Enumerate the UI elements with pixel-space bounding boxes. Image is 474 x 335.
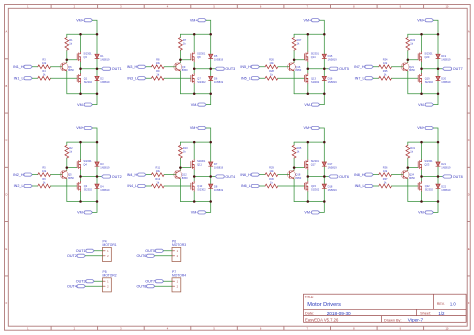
wire OUT4 to pin 2 xyxy=(85,285,102,287)
svg-text:Drawn By:: Drawn By: xyxy=(384,318,402,322)
diode D8 1N5819 low side (row2 col2) xyxy=(209,184,224,192)
wire diode column (row1 col4) xyxy=(437,34,439,93)
resistor R5 10k base series (row2 col1) xyxy=(38,165,51,176)
svg-text:R34: R34 xyxy=(383,58,388,62)
port OUT4 to P5 pin 2 xyxy=(67,284,85,288)
transistor Q18 8050 NPN (row2 col3) xyxy=(287,170,301,180)
svg-text:R26: R26 xyxy=(269,58,274,62)
input port IN4_L (row2 col2) xyxy=(127,184,146,188)
svg-text:R35: R35 xyxy=(383,69,388,73)
transistor Q15 SI2302 N-FET (row2 col3) xyxy=(305,181,320,192)
svg-text:Q4: Q4 xyxy=(83,163,87,167)
svg-text:Q10: Q10 xyxy=(197,184,202,188)
input port IN2_L (row2 col1) xyxy=(14,184,33,188)
svg-text:8050: 8050 xyxy=(182,68,188,72)
svg-text:1.0: 1.0 xyxy=(450,301,456,306)
svg-text:D4: D4 xyxy=(100,184,104,188)
svg-text:OUT8: OUT8 xyxy=(453,175,463,179)
wire VM+ to top rail (row2 col4) xyxy=(434,128,439,142)
wire gate node to P-FET gate (row2 col4) xyxy=(408,167,418,169)
wire gate resistor to N-FET gate (row2 col4) xyxy=(392,185,419,187)
svg-text:IN5_H: IN5_H xyxy=(240,65,251,69)
power port VM- (row2 col2) xyxy=(191,211,206,215)
svg-text:OUT8: OUT8 xyxy=(136,284,146,288)
port OUT7 to P7 pin 1 xyxy=(145,279,163,283)
svg-text:R10: R10 xyxy=(183,146,188,150)
resistor R36 10k base series (row2 col4) xyxy=(379,165,392,176)
svg-text:R11: R11 xyxy=(156,165,161,169)
wire base resistor to Q base (row2 col1) xyxy=(51,174,63,176)
svg-text:OUT7: OUT7 xyxy=(145,279,155,283)
wire OUT5 to pin 1 xyxy=(164,250,172,252)
wire emitter to bottom rail (row2 col4) xyxy=(407,179,409,202)
wire FET column verticals (row1 col1) xyxy=(80,34,82,93)
svg-text:R6: R6 xyxy=(42,177,46,181)
wire IN1_L to gate resistor (row1 col1) xyxy=(32,77,38,79)
wire gate resistor to N-FET gate (row2 col2) xyxy=(164,185,191,187)
junction dots (row1 col4) xyxy=(407,33,440,95)
wire base resistor to Q base (row2 col2) xyxy=(164,174,176,176)
svg-text:VM+: VM+ xyxy=(190,18,198,22)
wire diode column (row2 col1) xyxy=(96,142,98,201)
connector P4 MOTOR1 xyxy=(103,240,117,262)
transistor Q22 SI2302 N-FET (row2 col4) xyxy=(418,181,433,192)
resistor R30 1k gate series (row2 col3) xyxy=(265,177,278,188)
svg-text:1N5819: 1N5819 xyxy=(328,188,338,192)
input port IN4_H (row2 col2) xyxy=(127,173,146,177)
svg-text:OUT6: OUT6 xyxy=(339,175,349,179)
output port OUT3 (row1 col2) xyxy=(215,67,235,71)
wire output row (row2 col3) xyxy=(308,176,329,178)
wire collector to gate node (row1 col4) xyxy=(407,60,409,63)
diode D3 1N5819 high side (row2 col1) xyxy=(95,162,110,170)
svg-text:D19: D19 xyxy=(441,54,446,58)
input port IN1_H (row1 col1) xyxy=(13,65,32,69)
svg-text:10k: 10k xyxy=(269,61,274,65)
svg-text:OUT3: OUT3 xyxy=(76,279,86,283)
svg-text:OUT4: OUT4 xyxy=(225,175,235,179)
wire bottom rail (row2 col1) xyxy=(67,201,97,203)
wire diode column (row1 col2) xyxy=(210,34,212,93)
wire diode column (row1 col1) xyxy=(96,34,98,93)
transistor Q11 SI2301 P-FET (row2 col2) xyxy=(191,159,206,170)
wire IN7_H to base resistor (row1 col4) xyxy=(373,66,379,68)
wire gate node to P-FET gate (row1 col4) xyxy=(408,59,418,61)
power port VM- (row1 col4) xyxy=(418,103,433,107)
transistor Q9 8050 NPN (row1 col2) xyxy=(174,63,188,73)
svg-text:R8: R8 xyxy=(156,58,160,62)
svg-text:R2: R2 xyxy=(69,146,73,150)
transistor Q21 8050 NPN (row1 col4) xyxy=(401,63,415,73)
svg-text:A: A xyxy=(468,30,470,34)
transistor Q19 SI2302 N-FET (row1 col4) xyxy=(418,73,433,84)
wire diode column (row2 col3) xyxy=(323,142,325,201)
wire emitter to bottom rail (row1 col3) xyxy=(293,71,295,94)
output port OUT7 (row1 col4) xyxy=(443,67,463,71)
svg-text:EasyEDA V5.7.26: EasyEDA V5.7.26 xyxy=(305,317,339,322)
svg-text:R5: R5 xyxy=(42,165,46,169)
svg-text:10k: 10k xyxy=(383,169,388,173)
svg-text:C: C xyxy=(5,138,7,142)
diode D1 1N5819 high side (row1 col1) xyxy=(95,54,110,62)
svg-text:D6: D6 xyxy=(214,77,218,81)
svg-text:8050: 8050 xyxy=(295,176,301,180)
svg-text:D8: D8 xyxy=(214,184,218,188)
wire gate resistor to N-FET gate (row1 col3) xyxy=(278,77,305,79)
svg-text:D1: D1 xyxy=(100,54,104,58)
input port IN5_H (row1 col3) xyxy=(240,65,259,69)
svg-text:1N5819: 1N5819 xyxy=(214,80,224,84)
wire base resistor to Q base (row1 col3) xyxy=(278,66,290,68)
port OUT3 to P5 pin 1 xyxy=(76,279,94,283)
wire top rail (row1 col3) xyxy=(294,33,324,35)
svg-text:1N5819: 1N5819 xyxy=(441,58,451,62)
svg-text:OUT1: OUT1 xyxy=(112,67,122,71)
resistor R10 1k pull-up (row2 col2) xyxy=(179,142,189,168)
svg-text:SI2301: SI2301 xyxy=(424,159,433,163)
svg-text:IN1_H: IN1_H xyxy=(13,65,24,69)
wire collector to gate node (row2 col4) xyxy=(407,168,409,171)
svg-text:D2: D2 xyxy=(100,77,104,81)
transistor Q6 8050 NPN (row1 col1) xyxy=(60,63,74,73)
input port IN8_H (row2 col4) xyxy=(354,173,373,177)
svg-text:R33: R33 xyxy=(410,38,415,42)
wire output row (row1 col4) xyxy=(422,68,443,70)
wire gate node to P-FET gate (row2 col1) xyxy=(67,167,77,169)
svg-text:VM-: VM- xyxy=(77,103,85,107)
diode D2 1N5819 low side (row1 col1) xyxy=(95,76,110,84)
svg-text:OUT4: OUT4 xyxy=(67,284,77,288)
svg-text:1N5819: 1N5819 xyxy=(214,188,224,192)
connector P7 MOTOR4 xyxy=(172,270,186,292)
transistor Q4 SI2301 P-FET (row2 col1) xyxy=(77,159,92,170)
wire FET column verticals (row1 col4) xyxy=(421,34,423,93)
wire collector to gate node (row2 col2) xyxy=(179,168,181,171)
wire base resistor to Q base (row1 col2) xyxy=(164,66,176,68)
transistor Q13 SI2302 N-FET (row1 col3) xyxy=(305,73,320,84)
svg-text:VM+: VM+ xyxy=(417,126,425,130)
wire emitter to bottom rail (row1 col2) xyxy=(179,71,181,94)
resistor R3 10k base series (row1 col1) xyxy=(38,58,51,69)
wire emitter to bottom rail (row2 col2) xyxy=(179,179,181,202)
svg-text:IN6_H: IN6_H xyxy=(240,173,251,177)
svg-text:SI2302: SI2302 xyxy=(84,188,93,192)
svg-text:1N5819: 1N5819 xyxy=(100,58,110,62)
svg-text:IN4_L: IN4_L xyxy=(127,184,137,188)
svg-text:R12: R12 xyxy=(155,177,160,181)
svg-text:IN5_L: IN5_L xyxy=(241,76,251,80)
svg-text:D21: D21 xyxy=(441,162,446,166)
resistor R9 1k gate series (row1 col2) xyxy=(151,69,164,80)
svg-text:E: E xyxy=(468,247,470,251)
wire IN5_H to base resistor (row1 col3) xyxy=(260,66,266,68)
wire collector to gate node (row1 col3) xyxy=(293,60,295,63)
svg-text:IN2_H: IN2_H xyxy=(13,173,24,177)
wire VM+ to top rail (row1 col2) xyxy=(206,20,211,34)
input port IN6_L (row2 col3) xyxy=(241,184,260,188)
svg-text:Viper-7: Viper-7 xyxy=(408,318,424,324)
wire OUT1 to pin 1 xyxy=(94,250,102,252)
power port VM- (row2 col4) xyxy=(418,211,433,215)
diode D18 1N5819 low side (row2 col3) xyxy=(322,184,337,192)
junction dots (row2 col3) xyxy=(293,141,326,203)
svg-text:OUT1: OUT1 xyxy=(76,249,86,253)
svg-text:VM+: VM+ xyxy=(304,126,312,130)
wire collector to gate node (row2 col1) xyxy=(66,168,68,171)
svg-text:IN7_H: IN7_H xyxy=(354,65,365,69)
svg-text:VM-: VM- xyxy=(418,103,426,107)
wire FET column verticals (row2 col3) xyxy=(307,142,309,201)
svg-text:D18: D18 xyxy=(328,184,333,188)
svg-text:MOTOR1: MOTOR1 xyxy=(103,243,117,247)
svg-text:R3: R3 xyxy=(42,58,46,62)
output port OUT8 (row2 col4) xyxy=(443,175,463,179)
wire VM- riser (row1 col1) xyxy=(93,94,98,105)
wire OUT6 to pin 2 xyxy=(155,255,172,257)
svg-text:10k: 10k xyxy=(42,169,47,173)
wire output row (row2 col4) xyxy=(422,176,443,178)
svg-text:1N5819: 1N5819 xyxy=(328,165,338,169)
power port VM- (row2 col1) xyxy=(77,211,92,215)
resistor R26 10k base series (row1 col3) xyxy=(265,58,278,69)
output port OUT5 (row1 col3) xyxy=(329,67,349,71)
svg-text:A: A xyxy=(6,30,8,34)
wire top rail (row1 col2) xyxy=(180,33,210,35)
transistor Q12 8050 NPN (row2 col2) xyxy=(174,170,188,180)
wire bottom rail (row2 col3) xyxy=(294,201,324,203)
resistor R12 1k gate series (row2 col2) xyxy=(151,177,164,188)
wire output row (row1 col1) xyxy=(81,68,102,70)
svg-text:SI2302: SI2302 xyxy=(84,80,93,84)
wire FET column verticals (row2 col2) xyxy=(193,142,195,201)
wire base resistor to Q base (row2 col3) xyxy=(278,174,290,176)
svg-text:SI2301: SI2301 xyxy=(424,51,433,55)
svg-text:VM-: VM- xyxy=(191,211,199,215)
svg-text:SI2301: SI2301 xyxy=(83,51,92,55)
wire collector to gate node (row2 col3) xyxy=(293,168,295,171)
wire OUT2 to pin 2 xyxy=(85,255,102,257)
svg-text:Q13: Q13 xyxy=(311,76,316,80)
wire IN8_H to base resistor (row2 col4) xyxy=(373,174,379,176)
wire output row (row2 col2) xyxy=(194,176,215,178)
transistor Q3 SI2301 P-FET (row1 col1) xyxy=(77,51,92,62)
resistor R6 1k gate series (row2 col1) xyxy=(38,177,51,188)
svg-text:Q19: Q19 xyxy=(425,76,430,80)
power port VM+ (row1 col4) xyxy=(417,18,433,22)
wire VM+ to top rail (row2 col1) xyxy=(93,128,98,142)
svg-text:D15: D15 xyxy=(328,54,333,58)
input port IN3_H (row1 col2) xyxy=(127,65,146,69)
wire bottom rail (row2 col4) xyxy=(408,201,438,203)
diode D5 1N5819 high side (row1 col2) xyxy=(209,54,224,62)
svg-text:8050: 8050 xyxy=(68,68,74,72)
wire IN6_L to gate resistor (row2 col3) xyxy=(260,185,266,187)
wire gate resistor to N-FET gate (row1 col1) xyxy=(51,77,78,79)
svg-text:VM+: VM+ xyxy=(304,18,312,22)
svg-text:IN2_L: IN2_L xyxy=(14,184,24,188)
wire output row (row1 col2) xyxy=(194,68,215,70)
power port VM+ (row2 col4) xyxy=(417,126,433,130)
wire bottom rail (row2 col2) xyxy=(180,201,210,203)
svg-text:IN3_H: IN3_H xyxy=(127,65,138,69)
input port IN7_L (row1 col4) xyxy=(355,76,374,80)
wire VM- riser (row1 col3) xyxy=(320,94,325,105)
power port VM- (row1 col2) xyxy=(191,103,206,107)
wire IN8_L to gate resistor (row2 col4) xyxy=(373,185,379,187)
power port VM+ (row1 col1) xyxy=(76,18,92,22)
svg-text:R7: R7 xyxy=(183,38,187,42)
resistor R8 10k base series (row1 col2) xyxy=(151,58,164,69)
svg-text:SI2301: SI2301 xyxy=(83,159,92,163)
svg-text:E: E xyxy=(6,247,8,251)
wire IN5_L to gate resistor (row1 col3) xyxy=(260,77,266,79)
svg-text:10k: 10k xyxy=(383,61,388,65)
wire gate node to P-FET gate (row2 col3) xyxy=(294,167,304,169)
output port OUT4 (row2 col2) xyxy=(215,175,235,179)
transistor Q10 SI2302 N-FET (row2 col2) xyxy=(191,181,206,192)
wire IN1_H to base resistor (row1 col1) xyxy=(32,66,38,68)
wire bottom rail (row1 col1) xyxy=(67,93,97,95)
wire emitter to bottom rail (row2 col1) xyxy=(66,179,68,202)
port OUT6 to P6 pin 2 xyxy=(136,254,154,258)
svg-text:SI2302: SI2302 xyxy=(311,80,320,84)
svg-text:1N5819: 1N5819 xyxy=(100,165,110,169)
svg-text:IN4_H: IN4_H xyxy=(127,173,138,177)
transistor Q24 8050 NPN (row2 col4) xyxy=(401,170,415,180)
title block frame xyxy=(304,294,467,322)
port OUT5 to P6 pin 1 xyxy=(145,249,163,253)
wire output row (row1 col3) xyxy=(308,68,329,70)
diode D7 1N5819 high side (row2 col2) xyxy=(209,162,224,170)
wire IN7_L to gate resistor (row1 col4) xyxy=(373,77,379,79)
resistor R34 10k base series (row1 col4) xyxy=(379,58,392,69)
wire top rail (row1 col4) xyxy=(408,33,438,35)
diode D6 1N5819 low side (row1 col2) xyxy=(209,76,224,84)
svg-text:SI2302: SI2302 xyxy=(425,188,434,192)
resistor R29 10k base series (row2 col3) xyxy=(265,165,278,176)
diode D16 1N5819 low side (row1 col3) xyxy=(322,76,337,84)
resistor R1 1k pull-up (row1 col1) xyxy=(65,34,73,60)
wire diode column (row2 col4) xyxy=(437,142,439,201)
svg-text:B: B xyxy=(468,84,470,88)
resistor R28 1k gate series (row1 col3) xyxy=(265,69,278,80)
input port IN7_H (row1 col4) xyxy=(354,65,373,69)
junction dots (row1 col2) xyxy=(179,33,212,95)
wire OUT7 to pin 1 xyxy=(164,280,172,282)
svg-text:SI2301: SI2301 xyxy=(311,51,320,55)
svg-text:Sheet:: Sheet: xyxy=(420,312,431,316)
wire output row (row2 col1) xyxy=(81,176,102,178)
svg-text:IN8_H: IN8_H xyxy=(354,173,365,177)
svg-text:D16: D16 xyxy=(328,77,333,81)
wire top rail (row2 col3) xyxy=(294,141,324,143)
input port IN5_L (row1 col3) xyxy=(241,76,260,80)
connector P5 MOTOR2 xyxy=(103,270,117,292)
svg-text:1N5819: 1N5819 xyxy=(214,58,224,62)
svg-text:IN6_L: IN6_L xyxy=(241,184,251,188)
svg-text:TITLE:: TITLE: xyxy=(305,295,314,299)
svg-text:R27: R27 xyxy=(297,38,302,42)
svg-text:Q14: Q14 xyxy=(311,55,316,59)
svg-text:IN1_L: IN1_L xyxy=(14,76,24,80)
svg-text:R31: R31 xyxy=(410,146,415,150)
svg-text:D3: D3 xyxy=(100,162,104,166)
wire VM- riser (row2 col3) xyxy=(320,202,325,213)
wire gate resistor to N-FET gate (row1 col2) xyxy=(164,77,191,79)
svg-text:VM-: VM- xyxy=(418,211,426,215)
power port VM+ (row2 col1) xyxy=(76,126,92,130)
svg-text:C: C xyxy=(468,138,470,142)
port OUT2 to P4 pin 2 xyxy=(67,254,85,258)
svg-text:MOTOR3: MOTOR3 xyxy=(172,243,186,247)
svg-text:Q20: Q20 xyxy=(424,55,429,59)
wire top rail (row2 col4) xyxy=(408,141,438,143)
svg-text:MOTOR2: MOTOR2 xyxy=(103,273,117,277)
svg-text:Date:: Date: xyxy=(305,311,314,316)
wire OUT8 to pin 2 xyxy=(155,285,172,287)
wire IN4_L to gate resistor (row2 col2) xyxy=(146,185,151,187)
svg-text:OUT7: OUT7 xyxy=(453,67,463,71)
svg-text:SI2302: SI2302 xyxy=(197,188,206,192)
output port OUT1 (row1 col1) xyxy=(102,67,122,71)
wire IN2_L to gate resistor (row2 col1) xyxy=(32,185,38,187)
junction dots (row2 col4) xyxy=(407,141,440,203)
svg-text:8050: 8050 xyxy=(409,68,415,72)
wire VM- riser (row2 col1) xyxy=(93,202,98,213)
svg-text:1N5819: 1N5819 xyxy=(100,188,110,192)
wire FET column verticals (row2 col4) xyxy=(421,142,423,201)
svg-text:OUT2: OUT2 xyxy=(112,175,122,179)
diode D19 1N5819 high side (row1 col4) xyxy=(436,54,451,62)
svg-text:IN7_L: IN7_L xyxy=(355,76,365,80)
svg-text:VM-: VM- xyxy=(304,211,312,215)
svg-text:D: D xyxy=(5,193,7,197)
svg-text:8050: 8050 xyxy=(295,68,301,72)
power port VM+ (row1 col3) xyxy=(304,18,320,22)
wire VM- riser (row1 col2) xyxy=(206,94,211,105)
wire bottom rail (row1 col4) xyxy=(408,93,438,95)
input port IN8_L (row2 col4) xyxy=(355,184,374,188)
svg-text:OUT2: OUT2 xyxy=(67,254,77,258)
svg-text:SI2301: SI2301 xyxy=(197,51,206,55)
input port IN1_L (row1 col1) xyxy=(14,76,33,80)
wire VM+ to top rail (row2 col3) xyxy=(320,128,325,142)
svg-text:8050: 8050 xyxy=(182,176,188,180)
svg-text:10k: 10k xyxy=(156,61,161,65)
diode D15 1N5819 high side (row1 col3) xyxy=(322,54,337,62)
wire IN4_H to base resistor (row2 col2) xyxy=(146,174,151,176)
svg-text:10k: 10k xyxy=(269,169,274,173)
wire gate node to P-FET gate (row1 col3) xyxy=(294,59,304,61)
svg-text:8050: 8050 xyxy=(68,176,74,180)
svg-text:SI2301: SI2301 xyxy=(197,159,206,163)
wire gate resistor to N-FET gate (row2 col3) xyxy=(278,185,305,187)
svg-text:SI2301: SI2301 xyxy=(311,159,320,163)
wire gate node to P-FET gate (row1 col1) xyxy=(67,59,77,61)
wire IN3_H to base resistor (row1 col2) xyxy=(146,66,151,68)
svg-text:B: B xyxy=(6,84,8,88)
wire IN2_H to base resistor (row2 col1) xyxy=(32,174,38,176)
diode D17 1N5819 high side (row2 col3) xyxy=(322,162,337,170)
svg-text:1N5819: 1N5819 xyxy=(441,188,451,192)
transistor Q14 SI2301 P-FET (row1 col3) xyxy=(305,51,320,62)
svg-text:MOTOR4: MOTOR4 xyxy=(172,273,186,277)
wire collector to gate node (row1 col2) xyxy=(179,60,181,63)
svg-text:R36: R36 xyxy=(383,165,388,169)
svg-text:R28: R28 xyxy=(269,69,274,73)
svg-text:Q3: Q3 xyxy=(83,55,87,59)
wire emitter to bottom rail (row1 col1) xyxy=(66,71,68,94)
